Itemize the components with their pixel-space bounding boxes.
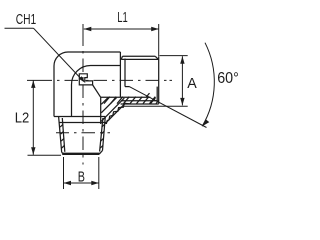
right stud crest chamfer left xyxy=(121,56,122,59)
CH1 leader line xyxy=(34,28,81,78)
L1 dimension line xyxy=(84,28,159,30)
B left arrow xyxy=(64,181,72,185)
diagonal from corner symbol to web xyxy=(93,85,101,97)
svg-text:B: B xyxy=(78,168,85,185)
B dimension line xyxy=(64,182,99,184)
bottom stud left corner chamfer xyxy=(62,153,64,154)
B left extension line xyxy=(63,157,65,189)
right stud end face inner xyxy=(156,87,158,102)
right stud section band top xyxy=(101,96,151,98)
B right extension line xyxy=(98,157,100,189)
right stud end face outer xyxy=(158,56,160,104)
body right face xyxy=(119,52,121,97)
A dimension line xyxy=(181,56,183,105)
svg-text:L2: L2 xyxy=(15,110,30,127)
60-deg arc arrowhead xyxy=(202,119,209,126)
thread start line across taper xyxy=(59,122,107,124)
horizontal centerline right port xyxy=(27,79,172,81)
hex flat line vertical xyxy=(71,85,73,117)
right stud thread crest top xyxy=(123,55,156,57)
CH1 leader arrowhead xyxy=(79,76,86,83)
A top arrow xyxy=(180,56,184,64)
bottom stud taper left outer xyxy=(59,117,62,153)
hex flat corner arc xyxy=(72,66,91,85)
L1 right extension line xyxy=(158,24,160,56)
vertical centerline / L1 extension xyxy=(82,24,84,165)
B right arrow xyxy=(91,181,99,185)
body outer top edge xyxy=(68,51,120,53)
bottom stud end face (thick) xyxy=(62,153,99,155)
body outer corner fillet xyxy=(54,52,68,66)
L2 bottom arrow xyxy=(31,147,35,155)
svg-text:L1: L1 xyxy=(117,9,128,26)
thread ticks right xyxy=(100,124,104,148)
svg-text:CH1: CH1 xyxy=(16,11,37,28)
bottom stud right corner chamfer xyxy=(100,151,103,154)
web left edge xyxy=(100,97,102,124)
svg-text:60°: 60° xyxy=(217,70,239,87)
L2 bottom extension line xyxy=(28,154,62,156)
L2 dimension line xyxy=(32,80,34,154)
body outer left edge xyxy=(53,66,55,117)
thread ticks left xyxy=(60,124,64,148)
L1 left arrow xyxy=(84,27,92,31)
right stud bore line (section) xyxy=(125,86,130,88)
right stud crest chamfer right xyxy=(155,56,158,59)
bottom stud taper left inner xyxy=(62,118,65,152)
hex flat line horizontal xyxy=(91,65,121,67)
right stud section band crest xyxy=(121,103,159,105)
web hatch xyxy=(101,97,125,123)
CH1 underline xyxy=(5,27,34,29)
body bottom shoulder xyxy=(54,116,105,118)
right stud undercut groove xyxy=(124,59,126,87)
60-deg cone flank extension line xyxy=(130,87,207,128)
L2 top arrow xyxy=(31,80,35,88)
60-deg angle arc xyxy=(202,43,214,127)
A bottom extension line xyxy=(123,105,188,107)
horizontal centerline across bottom stud xyxy=(56,132,110,134)
A top extension line xyxy=(160,55,188,57)
section hatch on right stud band xyxy=(104,93,159,104)
web thread-profile staircase xyxy=(106,103,129,124)
bottom stud taper right outer xyxy=(103,117,106,151)
svg-text:A: A xyxy=(187,75,197,92)
right stud section band root xyxy=(121,100,157,102)
L1 right arrow xyxy=(151,27,159,31)
A bottom arrow xyxy=(180,98,184,106)
right stud thread root top xyxy=(121,58,158,60)
bottom stud taper right inner xyxy=(100,118,103,152)
corner detail symbol xyxy=(79,74,92,85)
